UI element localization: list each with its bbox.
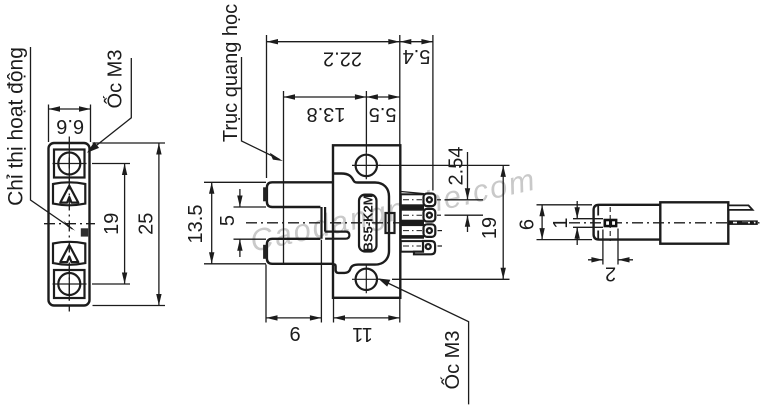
web 3 xyxy=(402,236,425,239)
centerline middle view xyxy=(246,222,400,224)
cap boundary line xyxy=(597,206,599,240)
dim 5 line tails xyxy=(239,189,241,257)
svg-text:11: 11 xyxy=(352,323,373,345)
leader Truc quang hoc xyxy=(242,57,280,160)
dim 19 extension lines xyxy=(92,164,130,285)
right view bottom pin xyxy=(728,220,758,225)
screw hole circle bottom xyxy=(58,273,80,295)
pin centerline extensions xyxy=(437,199,441,201)
dim 6.6 line xyxy=(49,108,91,110)
dim 6.6 extension lines xyxy=(49,105,91,143)
dim 11 line xyxy=(334,317,400,319)
dim 19 line xyxy=(124,164,126,285)
svg-text:Chỉ thị hoạt động: Chỉ thị hoạt động xyxy=(5,47,28,206)
svg-text:22.2: 22.2 xyxy=(323,48,362,70)
dim 6 (right view) extension lines xyxy=(537,205,593,240)
svg-text:6: 6 xyxy=(289,324,300,346)
svg-text:6: 6 xyxy=(517,219,539,230)
dim 6 line xyxy=(266,317,321,319)
right view body left section xyxy=(594,204,661,241)
right edge tab xyxy=(386,213,395,233)
dim 13.5 line xyxy=(211,182,213,263)
pin 1 xyxy=(401,194,436,207)
leader Chi thi hoat dong xyxy=(31,47,73,229)
left view vertical centerline xyxy=(68,137,70,312)
indicator triangle 2 xyxy=(60,245,78,262)
leader Oc M3 top xyxy=(90,58,131,151)
svg-text:19: 19 xyxy=(101,213,123,235)
svg-text:5: 5 xyxy=(217,215,239,226)
right view body right section xyxy=(660,202,728,243)
screw cross bottom xyxy=(53,267,87,301)
dim 5.4 extension line xyxy=(432,35,434,191)
indicator window 2 xyxy=(53,242,85,265)
optical element xyxy=(604,219,618,228)
left view body xyxy=(49,143,90,306)
fork top prong xyxy=(267,182,333,207)
dim 22.2 extension lines xyxy=(267,35,400,178)
fork bottom prong lens cap xyxy=(263,245,267,259)
svg-text:Ốc M3: Ốc M3 xyxy=(440,331,464,390)
svg-text:6.6: 6.6 xyxy=(56,115,84,137)
model label plate xyxy=(359,195,377,252)
dim 5.5 line xyxy=(366,96,399,98)
screw hole square top xyxy=(54,150,85,178)
optical axis line xyxy=(283,91,285,264)
dim 19 (middle) extension lines xyxy=(379,165,510,279)
dim 22.2 line xyxy=(267,41,400,43)
left view horizontal centerline xyxy=(44,223,95,225)
svg-text:Ốc M3: Ốc M3 xyxy=(103,50,127,109)
dim 13.8 extension line right xyxy=(365,91,367,152)
svg-text:2: 2 xyxy=(605,263,616,285)
dim 13.5 extension lines xyxy=(204,182,266,263)
screw hole square bottom xyxy=(54,270,85,298)
pin 4 xyxy=(401,241,435,254)
housing outline xyxy=(333,174,389,273)
dim 11 extension lines xyxy=(334,299,400,323)
fork top prong lens cap xyxy=(263,187,267,201)
web 1 xyxy=(402,206,425,211)
svg-text:1: 1 xyxy=(550,217,572,228)
dim 5.4 line xyxy=(400,41,433,43)
dim 19 line xyxy=(502,165,504,279)
dim 5 extension lines xyxy=(234,207,267,239)
pin 2 xyxy=(401,209,436,222)
svg-text:5.4: 5.4 xyxy=(403,45,431,67)
tongue bar xyxy=(325,232,349,239)
watermark xyxy=(247,161,540,258)
right view centerline xyxy=(569,222,760,224)
web 2 xyxy=(402,221,425,226)
svg-text:19: 19 xyxy=(479,217,501,239)
dim 2 line tails xyxy=(588,259,633,261)
slot end double line xyxy=(322,207,326,239)
svg-text:13.8: 13.8 xyxy=(307,103,346,125)
pin 3 xyxy=(401,224,436,237)
dim 2.54 line tails xyxy=(467,152,469,232)
leader Oc M3 bottom xyxy=(381,280,469,405)
svg-text:Trục quang học: Trục quang học xyxy=(220,4,242,142)
svg-text:25: 25 xyxy=(136,213,158,235)
operation indicator LED (hatched square) xyxy=(81,228,88,236)
indicator window 1 xyxy=(53,182,85,205)
screw cross top xyxy=(53,147,87,181)
dim 6 (right view) line xyxy=(541,205,543,240)
mounting hole bottom xyxy=(356,269,377,290)
dim 25 extension lines xyxy=(93,143,166,306)
svg-text:BS5-K2M: BS5-K2M xyxy=(360,194,375,251)
indicator triangle 1 xyxy=(60,186,78,203)
screw hole circle top xyxy=(58,153,80,175)
optical element center dash xyxy=(609,207,611,241)
fork bottom prong xyxy=(267,239,333,264)
dim 2 extension lines xyxy=(603,229,618,265)
dim 6 (bottom) extension lines xyxy=(266,240,321,323)
mounting hole top xyxy=(356,155,377,176)
right view top pin xyxy=(728,205,752,210)
mounting plate xyxy=(333,145,400,297)
dim 1 line tails xyxy=(576,201,578,245)
svg-text:5.5: 5.5 xyxy=(369,103,397,125)
dim 13.8 line xyxy=(284,96,367,98)
dim 25 line xyxy=(158,143,160,306)
svg-text:13.5: 13.5 xyxy=(185,205,207,244)
dim 1 extension lines xyxy=(573,219,603,228)
